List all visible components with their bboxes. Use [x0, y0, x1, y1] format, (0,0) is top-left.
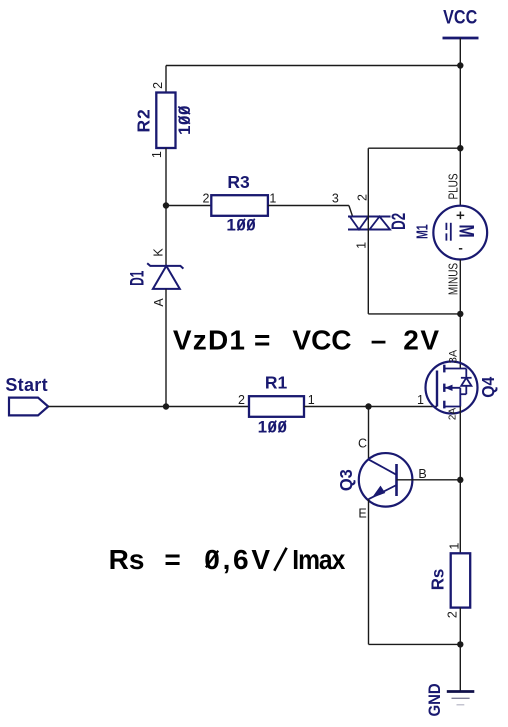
wire main rail down to D2/M1 top [459, 66, 461, 149]
resistor Rs [427, 543, 470, 618]
junction node VCC rail [457, 62, 463, 68]
power symbol VCC [443, 6, 479, 65]
svg-text:R3: R3 [227, 172, 250, 192]
text formula Rs = 0,6V/Imax [109, 544, 346, 576]
wire emitter branch bottom [369, 643, 461, 645]
svg-text:2: 2 [238, 393, 245, 407]
svg-text:1: 1 [308, 393, 315, 407]
junction node B [457, 477, 463, 483]
svg-text:Rs: Rs [427, 569, 448, 591]
svg-text:Imax: Imax [292, 544, 345, 576]
wire Rs pin2 to node [459, 608, 461, 645]
svg-text:–: – [371, 324, 387, 355]
svg-text:VCC: VCC [292, 324, 351, 355]
svg-text:E: E [358, 507, 366, 521]
connector Start [5, 375, 48, 415]
wire node to R1 pin2 [166, 406, 249, 408]
svg-text:2A: 2A [448, 408, 459, 421]
zener diode D1 [128, 248, 183, 307]
wire node to D1 cathode [165, 206, 167, 266]
svg-text:100: 100 [258, 417, 288, 436]
wire D2 branch vertical [367, 148, 369, 314]
svg-text:2: 2 [446, 611, 460, 618]
svg-text:100: 100 [175, 105, 194, 135]
junction node emitter/Rs/GND [457, 641, 463, 647]
wire R2 pin2 lead [165, 66, 167, 93]
wire R1 pin1 to node [304, 406, 369, 408]
svg-text:=: = [254, 324, 270, 355]
svg-text:R2: R2 [134, 108, 154, 132]
wire node to Q4 gate [369, 406, 438, 408]
wire node to R3 pin2 [166, 205, 211, 207]
svg-text:1: 1 [269, 192, 276, 206]
svg-text:C: C [358, 437, 367, 451]
junction node R2/R3/D1 [163, 202, 169, 208]
svg-text:D2: D2 [388, 213, 410, 230]
svg-text:1: 1 [355, 242, 369, 249]
svg-text:Q4: Q4 [478, 376, 498, 398]
svg-text:Rs: Rs [109, 544, 145, 575]
svg-text:1: 1 [150, 151, 164, 158]
svg-text:GND: GND [426, 683, 444, 716]
svg-text:M: M [455, 224, 479, 237]
svg-text:B: B [418, 467, 426, 481]
svg-text:VzD1: VzD1 [173, 324, 246, 355]
svg-text:0,6V: 0,6V [204, 544, 272, 575]
wire Q4 source to node B [459, 407, 461, 480]
wire D2 top branch [368, 147, 460, 149]
junction node D2/M1 top [457, 145, 463, 151]
svg-text:Q3: Q3 [337, 469, 357, 491]
svg-text:M1: M1 [413, 224, 431, 239]
wire node B to Rs pin1 [459, 480, 461, 553]
svg-text:VCC: VCC [443, 6, 477, 28]
junction node R1/Q4/Q3 [365, 403, 371, 409]
wire main rail to Q4 drain [459, 314, 461, 369]
wire node to Q3 collector [368, 407, 370, 460]
wire R3 pin1 to D2 gate [268, 205, 349, 207]
resistor R2 [134, 82, 194, 158]
svg-text:Start: Start [5, 375, 48, 395]
junction node Start/D1/R1 [163, 403, 169, 409]
wire Q3 base to node B [397, 479, 461, 481]
svg-text:PLUS: PLUS [447, 173, 460, 199]
svg-text:D1: D1 [128, 271, 148, 286]
svg-text:1: 1 [447, 543, 461, 550]
svg-text:2V: 2V [403, 324, 440, 355]
transistor Q3 npn [337, 437, 427, 521]
wire Start to node [48, 406, 166, 408]
svg-text:R1: R1 [265, 372, 288, 392]
wire M1 minus lead [459, 260, 461, 314]
ground GND [426, 683, 474, 716]
resistor R3 [203, 172, 277, 234]
svg-text:100: 100 [226, 215, 256, 234]
svg-text:3: 3 [332, 192, 339, 206]
transistor Q4 n-mosfet [417, 349, 498, 420]
triac D2 [332, 192, 410, 249]
junction node D2/M1 bottom [457, 311, 463, 317]
svg-text:2: 2 [203, 192, 210, 206]
wire M1 plus lead [459, 148, 461, 206]
svg-text:2: 2 [355, 194, 369, 201]
svg-text:A: A [152, 298, 166, 307]
resistor R1 [238, 372, 315, 436]
wire D2 bottom branch [368, 313, 460, 315]
wire node to GND [459, 644, 461, 691]
text formula VzD1 = VCC - 2V [173, 324, 441, 355]
svg-text:1: 1 [417, 393, 424, 407]
wire Q3 emitter down [368, 499, 370, 644]
wire D1 anode down [165, 289, 167, 407]
svg-text:MINUS: MINUS [447, 263, 460, 296]
svg-text:2: 2 [151, 82, 165, 89]
svg-text:=: = [164, 544, 180, 575]
motor M1 [413, 173, 487, 295]
svg-text:3A: 3A [447, 349, 459, 363]
svg-text:K: K [152, 248, 166, 257]
wire top rail horizontal [166, 65, 460, 67]
wire R2 pin1 to node [165, 148, 167, 206]
